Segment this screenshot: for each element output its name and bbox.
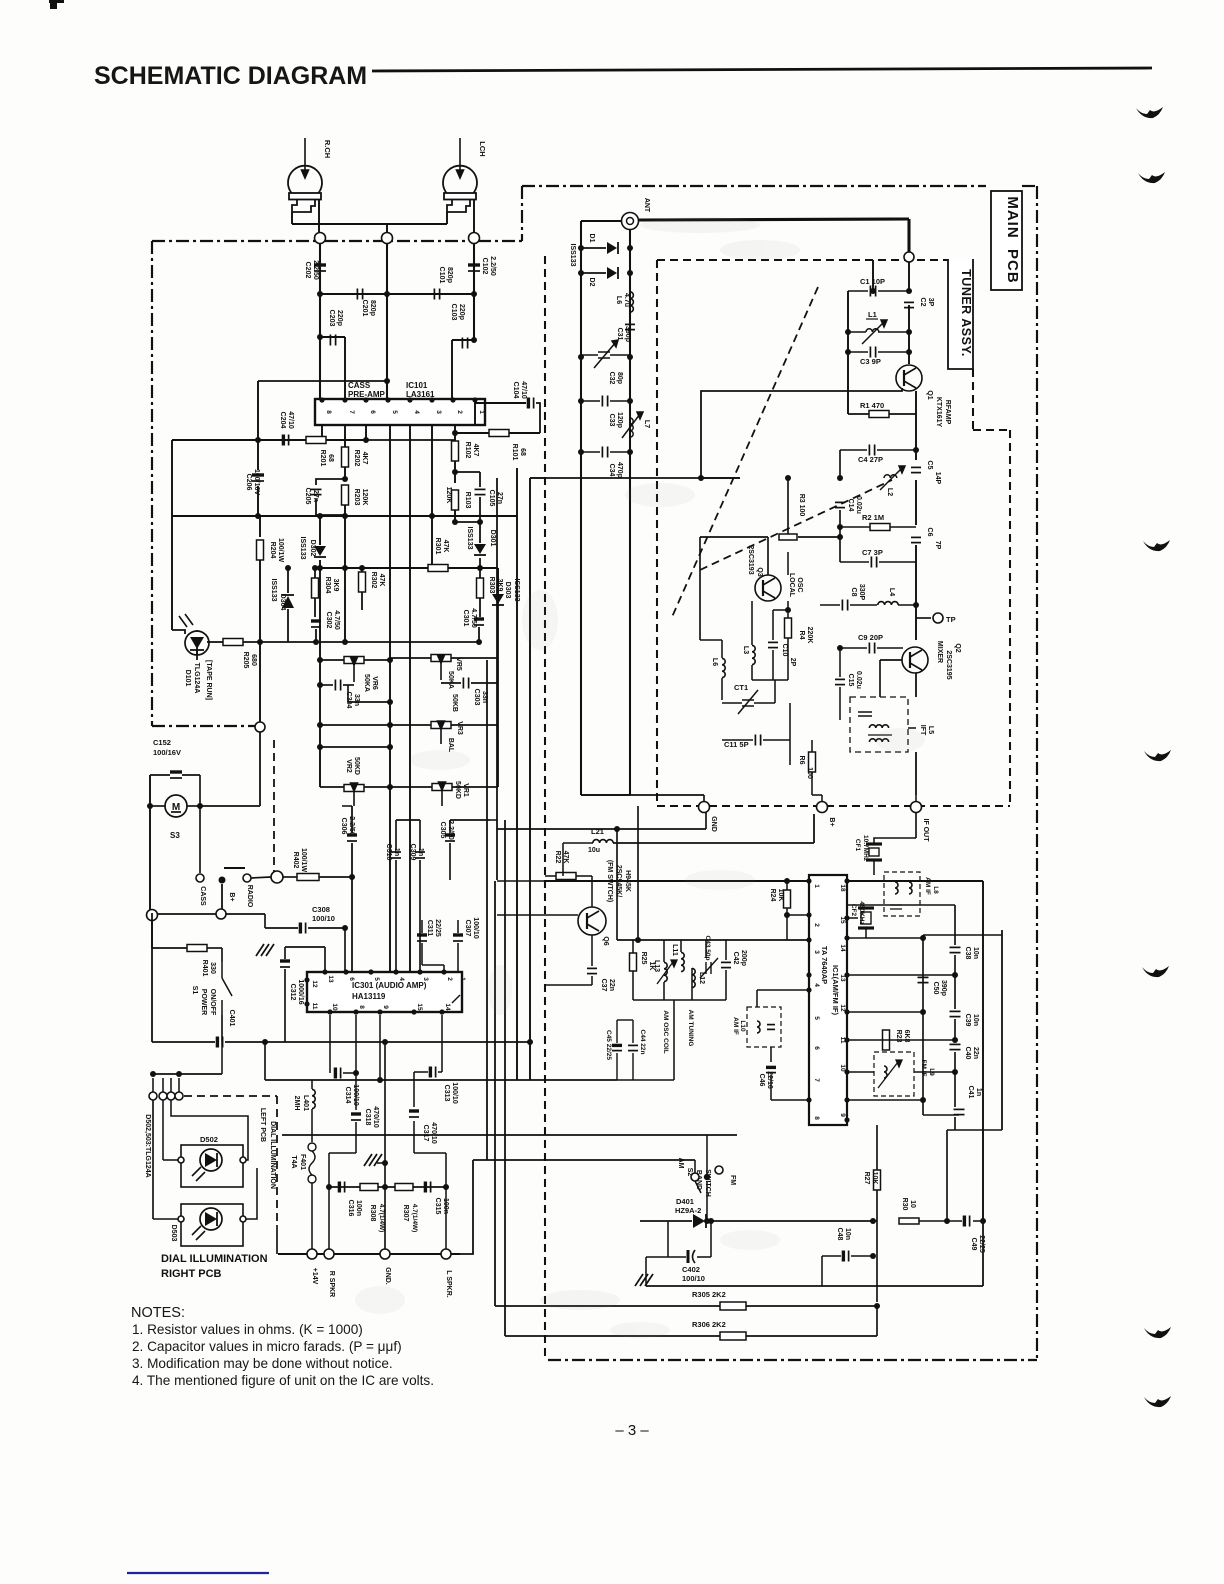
svg-text:3: 3 [813, 950, 820, 954]
svg-text:2.2/50: 2.2/50 [312, 260, 319, 280]
svg-text:C301: C301 [462, 610, 469, 627]
wire osc inj rail [637, 806, 639, 940]
switch S2 lever [695, 1181, 701, 1193]
junction [785, 607, 791, 613]
MAIN PCB label box [991, 191, 1022, 290]
svg-text:C201: C201 [361, 300, 368, 317]
wire rail 1002 [1001, 930, 1003, 1130]
wire to Q1 [908, 305, 910, 364]
wire C305 top [449, 820, 451, 833]
wire C301 down [478, 627, 480, 642]
wire D301 stub [479, 522, 481, 543]
wire L3 top [751, 601, 753, 645]
wire C37 top [591, 935, 593, 966]
svg-text:VR6: VR6 [371, 676, 378, 690]
wire C8 L4 [850, 604, 877, 606]
junction [870, 1253, 876, 1259]
svg-text:HA13119: HA13119 [352, 992, 386, 1001]
resistor R202 [342, 447, 349, 467]
capacitor C50 [918, 977, 929, 982]
MAIN PCB border corner [521, 186, 523, 241]
wire R3 to C14 [798, 536, 840, 538]
wire C401 drop [264, 1042, 266, 1080]
wire left vr rail [319, 568, 321, 787]
svg-text:ANT: ANT [643, 198, 650, 213]
wire D304 down [287, 609, 289, 642]
junction [255, 437, 261, 443]
svg-text:50KD: 50KD [454, 781, 461, 799]
svg-text:CASS: CASS [199, 886, 206, 906]
capacitor CT1 trimmer [738, 690, 758, 714]
capacitor C307 [453, 935, 463, 941]
wire R channel vertical [319, 243, 321, 399]
svg-text:L4: L4 [888, 588, 895, 596]
svg-text:4: 4 [813, 983, 820, 987]
svg-text:1000/16: 1000/16 [297, 979, 304, 1004]
connector pin 1 [149, 1092, 157, 1100]
wire long 478 [530, 477, 740, 479]
wire 478 join2 [530, 477, 545, 479]
resistor VR5 [431, 655, 451, 662]
terminal RADIO [243, 874, 251, 882]
wire row 747 [320, 746, 390, 748]
wire Q6 base left [497, 914, 578, 916]
wire GND bus 829 [497, 828, 706, 830]
junction [837, 475, 843, 481]
wire ANT left [581, 220, 622, 222]
junction [452, 519, 458, 525]
svg-text:R203: R203 [353, 489, 360, 506]
svg-text:C313: C313 [443, 1085, 450, 1102]
svg-text:Q1: Q1 [926, 390, 933, 399]
resistor R301 [428, 565, 448, 572]
svg-text:C39: C39 [964, 1014, 971, 1027]
wire TP [916, 617, 931, 619]
wire head L left [446, 212, 448, 224]
svg-text:6: 6 [813, 1046, 820, 1050]
wire C1 right [878, 290, 909, 292]
wire row to R102 [366, 439, 455, 441]
wire rail jog [947, 1129, 955, 1131]
wire L10 down [770, 1047, 772, 1062]
capacitor C204 [283, 435, 288, 446]
svg-text:R24: R24 [769, 889, 776, 902]
svg-text:R25: R25 [640, 952, 647, 965]
VR5 wiper arrow [438, 655, 445, 680]
wire conn2 [162, 1078, 164, 1092]
resistor R305 [720, 1302, 746, 1310]
svg-text:AM TUNING: AM TUNING [687, 1010, 694, 1047]
svg-text:DIAL ILLUMINATION: DIAL ILLUMINATION [269, 1121, 276, 1189]
capacitor C401 [217, 1037, 222, 1048]
svg-text:1: 1 [459, 977, 466, 981]
svg-text:50KB: 50KB [451, 694, 458, 712]
wire R6 down [811, 772, 813, 795]
wire CF2 down [865, 928, 867, 938]
binding mark [1143, 540, 1170, 551]
svg-text:C31: C31 [616, 328, 623, 341]
wire conn2 down [162, 1100, 164, 1160]
svg-text:8: 8 [358, 1005, 365, 1009]
wire Q3 top [700, 536, 768, 538]
wire C45 top [616, 1020, 618, 1043]
VR3 wiper arrow [438, 721, 445, 744]
wire L11 top [680, 940, 682, 952]
svg-text:C37: C37 [600, 979, 607, 992]
svg-text:14: 14 [444, 1003, 451, 1011]
svg-text:D304: D304 [279, 594, 286, 611]
wire R302 down [361, 592, 363, 610]
resistor R302 [359, 572, 366, 592]
svg-text:2MH: 2MH [293, 1096, 300, 1111]
svg-text:2P: 2P [789, 658, 796, 667]
svg-text:[TAPE RUN]: [TAPE RUN] [205, 660, 212, 700]
svg-text:10n: 10n [972, 1014, 979, 1026]
svg-text:C204: C204 [279, 412, 286, 429]
wire L21 left [563, 842, 593, 844]
wire R1 right [889, 413, 916, 415]
resistor R103 [452, 490, 459, 510]
wire D1 [581, 247, 606, 249]
svg-text:3: 3 [435, 410, 442, 414]
junction [342, 925, 348, 931]
wire to pin2 [451, 340, 453, 399]
wire head R left [291, 212, 293, 224]
pin dot IC301 bottom [439, 1009, 444, 1014]
resistor R101 [489, 430, 509, 437]
junction [952, 1037, 958, 1043]
diode D302 ISS133 [314, 546, 326, 557]
wire L1 right [878, 331, 909, 333]
pin dot IC301 top [343, 969, 348, 974]
capacitor C309 [415, 852, 425, 858]
junction [578, 245, 584, 251]
svg-text:C309: C309 [409, 844, 416, 861]
svg-text:RFAMP: RFAMP [944, 400, 951, 425]
svg-text:7P: 7P [934, 541, 941, 550]
svg-text:L7: L7 [643, 420, 650, 428]
svg-text:4.7u: 4.7u [623, 293, 630, 307]
node L input [469, 233, 480, 244]
wire C317 down [413, 1121, 415, 1153]
svg-text:T4A: T4A [290, 1155, 297, 1168]
wire L1 left [848, 331, 866, 333]
wire R4 down [787, 638, 789, 680]
wire rails bottom join [923, 1114, 959, 1116]
junction [387, 784, 393, 790]
junction [614, 826, 620, 832]
svg-text:R401: R401 [201, 960, 208, 977]
svg-text:R201: R201 [319, 450, 326, 467]
svg-text:D503: D503 [170, 1225, 177, 1242]
wire fuse down [311, 1183, 313, 1254]
junction [837, 534, 843, 540]
svg-text:470/10: 470/10 [430, 1122, 437, 1144]
wire bus 1080 [265, 1079, 470, 1081]
wire to pin7 [344, 337, 346, 399]
svg-text:6: 6 [369, 410, 376, 414]
junction [708, 1218, 714, 1224]
wire C33 right [610, 400, 630, 402]
LCH arrow [457, 138, 464, 178]
capacitor C38 [950, 947, 961, 952]
wire row 1042 [248, 1041, 530, 1043]
svg-text:R103: R103 [464, 492, 471, 509]
wire C306 to IC [351, 843, 353, 972]
junction [920, 1009, 926, 1015]
svg-text:1: 1 [478, 410, 485, 414]
pin dot IC1 right [844, 972, 849, 977]
wire conn3 [170, 1078, 172, 1092]
capacitor C43 trimmer [700, 958, 718, 978]
wire C32 right [610, 354, 630, 356]
svg-text:D301: D301 [489, 530, 496, 547]
R.CH arrow [302, 138, 309, 178]
wire D304 top [287, 568, 289, 593]
resistor R102 [452, 441, 459, 461]
svg-text:2. Capacitor values in micro f: 2. Capacitor values in micro farads. (P … [132, 1339, 402, 1354]
wire C303 wiper [441, 682, 461, 684]
pin dot IC1 left [806, 878, 811, 883]
capacitor C302 [311, 621, 321, 627]
wire R204 down [259, 560, 261, 722]
inductor L13 [664, 962, 667, 981]
wire S1 to dial [221, 1042, 223, 1074]
svg-text:C316: C316 [347, 1200, 354, 1217]
wire corner left [329, 1152, 356, 1154]
capacitor C15 [835, 679, 845, 684]
svg-text:4K7: 4K7 [361, 452, 368, 465]
svg-text:B+: B+ [828, 817, 835, 826]
svg-text:SCHEMATIC DIAGRAM: SCHEMATIC DIAGRAM [94, 62, 367, 90]
fuse F401 T4A [308, 1143, 316, 1183]
svg-text:50KD: 50KD [353, 757, 360, 775]
junction [384, 378, 390, 384]
capacitor C33 [602, 396, 607, 407]
junction [906, 288, 912, 294]
wire C306 top [351, 806, 353, 833]
wire C14 col top [839, 450, 841, 478]
svg-text:4.7/50: 4.7/50 [333, 610, 340, 630]
svg-text:22n: 22n [972, 1047, 979, 1059]
wire ic right 1100 [847, 1099, 923, 1101]
wire R304 top [314, 568, 316, 578]
wire L SPKR col [445, 1153, 447, 1254]
wire B+ down [221, 884, 223, 909]
svg-text:C205: C205 [304, 488, 311, 505]
wire mid vertical [386, 243, 388, 399]
wire R SPKR col [328, 1187, 330, 1254]
wire C312 top [284, 947, 286, 959]
L1 underline [866, 318, 878, 320]
resistor R27 [874, 1170, 881, 1190]
svg-text:220K: 220K [806, 627, 813, 644]
capacitor C311 [417, 935, 427, 941]
S2 contact c [715, 1166, 723, 1174]
svg-text:C402: C402 [682, 1265, 700, 1274]
wire R101 right [509, 432, 540, 434]
wire C309 top [419, 820, 421, 850]
wire C48 right [851, 1255, 873, 1257]
junction [578, 354, 584, 360]
svg-text:L13: L13 [653, 960, 660, 972]
node mid input [382, 233, 393, 244]
terminal GND [380, 1249, 390, 1259]
wire C308 right [308, 927, 345, 929]
capacitor C32 variable [594, 340, 618, 368]
corner registration mark [49, 0, 64, 9]
svg-text:1n: 1n [975, 1088, 982, 1096]
wire C401 right [225, 1041, 248, 1043]
svg-text:ISS133: ISS133 [466, 527, 473, 550]
tape head LCH [443, 166, 477, 212]
wire VR5 left [390, 657, 431, 659]
junction [845, 349, 851, 355]
terminal ANT inner [627, 218, 634, 225]
junction [382, 1160, 388, 1166]
svg-text:R205: R205 [242, 652, 249, 669]
capacitor C312 [280, 961, 290, 967]
wire C206 branch [257, 381, 259, 440]
capacitor C10 [768, 642, 778, 647]
junction [312, 565, 318, 571]
svg-text:22/16: 22/16 [766, 1071, 773, 1089]
resistor R203 [342, 485, 349, 505]
junction [342, 639, 348, 645]
capacitor C2 [904, 302, 914, 307]
resistor R23 [883, 1030, 890, 1050]
svg-text:VR3: VR3 [456, 721, 463, 735]
wire c37 join [545, 984, 592, 986]
wire join 881 [530, 880, 545, 882]
wire am row top [617, 939, 809, 941]
capacitor C42 [721, 962, 731, 967]
svg-text:C307: C307 [464, 920, 471, 937]
wire bus 1160 [473, 1159, 695, 1161]
svg-text:RADIO: RADIO [246, 885, 253, 908]
junction [471, 291, 477, 297]
resistor R304 [312, 578, 319, 598]
gang link dashed diagonal 1 [672, 287, 818, 617]
terminal TP [933, 613, 943, 623]
junction [317, 682, 323, 688]
capacitor C305 [445, 835, 455, 841]
wire R24 bottom [786, 908, 788, 940]
junction [913, 447, 919, 453]
svg-text:R303: R303 [488, 577, 495, 594]
node tuner input [904, 252, 914, 262]
svg-text:C8: C8 [850, 588, 857, 597]
svg-text:C9 20P: C9 20P [858, 633, 883, 642]
svg-text:ISS133: ISS133 [299, 537, 306, 560]
junction [285, 565, 291, 571]
terminal CASS [196, 874, 204, 882]
junction [317, 334, 323, 340]
wire L9 out [914, 1071, 955, 1073]
pin dot IC301 left [304, 977, 309, 982]
transistor Q3 2SC3193 [755, 575, 781, 601]
wire C37 down [591, 976, 593, 985]
wire Q1 emitter [915, 391, 917, 460]
wire C46 to IC [771, 1099, 809, 1101]
wire to D502 [163, 1159, 179, 1161]
wire C206 down [257, 486, 259, 516]
VR6 wiper arrow [351, 657, 358, 682]
wire R402 right [319, 876, 352, 878]
inductor L2 variable [880, 466, 905, 490]
pin dot IC1 left [806, 987, 811, 992]
inductor L11 [681, 952, 684, 971]
wire left rail low2 [151, 920, 153, 948]
svg-text:100/16V: 100/16V [153, 748, 181, 757]
junction [317, 744, 323, 750]
IF transformer L10 dashed box [747, 1007, 781, 1047]
svg-text:R307: R307 [402, 1205, 409, 1222]
wire LED bottom [196, 650, 198, 660]
svg-text:L401: L401 [302, 1095, 309, 1111]
wire cap row [320, 293, 474, 295]
junction [845, 329, 851, 335]
svg-text:68: 68 [519, 448, 526, 456]
svg-text:33n: 33n [353, 694, 360, 706]
wire C310 top [395, 820, 397, 850]
MAIN PCB border right [1036, 186, 1038, 1360]
wire bus right 881 [847, 880, 983, 882]
pin dot IC101 8 [319, 397, 324, 402]
capacitor C48 [843, 1251, 848, 1262]
svg-text:5: 5 [373, 977, 380, 981]
wire C1 left [848, 290, 868, 292]
wire to C206 [257, 440, 259, 470]
junction [317, 291, 323, 297]
svg-text:GND: GND [710, 816, 717, 832]
wire rail 495 [494, 881, 496, 1306]
svg-text:4: 4 [413, 410, 420, 414]
svg-text:18: 18 [839, 884, 846, 892]
pin dot IC301 top [393, 969, 398, 974]
tuner dashed top [657, 259, 948, 261]
wire to C308 [264, 914, 266, 928]
dashed node down [273, 740, 275, 872]
svg-text:390p: 390p [940, 980, 947, 996]
svg-text:22/25: 22/25 [978, 1235, 985, 1253]
svg-text:MAIN PCB: MAIN PCB [1004, 196, 1021, 283]
wire R30 right [919, 1220, 962, 1222]
pin dot IC1 right [844, 1069, 849, 1074]
capacitor C105 [475, 489, 486, 494]
capacitor L10 cap [767, 1025, 775, 1030]
wire ic right 938 [847, 937, 923, 939]
wire rail 955d [954, 1052, 956, 1107]
wire C45 down [616, 1053, 618, 1080]
pin dot IC101 5 [385, 397, 390, 402]
dashed vertical section divider [544, 256, 546, 1360]
svg-text:OSC: OSC [796, 577, 803, 592]
svg-text:LOCAL: LOCAL [788, 573, 795, 598]
resistor R22 [556, 873, 576, 880]
resistor R402 [297, 874, 319, 881]
wire row 702 [348, 701, 390, 703]
wire pin6 down [365, 425, 367, 440]
MAIN PCB border top right stub [1022, 185, 1037, 187]
svg-text:C206: C206 [245, 474, 252, 491]
svg-text:C310: C310 [385, 844, 392, 861]
capacitor C11 [755, 735, 760, 746]
svg-text:C44 22n: C44 22n [639, 1030, 646, 1055]
svg-text:2.2/50: 2.2/50 [489, 256, 496, 276]
wire pin2 down [454, 425, 456, 441]
wire C402 up [710, 1221, 712, 1257]
